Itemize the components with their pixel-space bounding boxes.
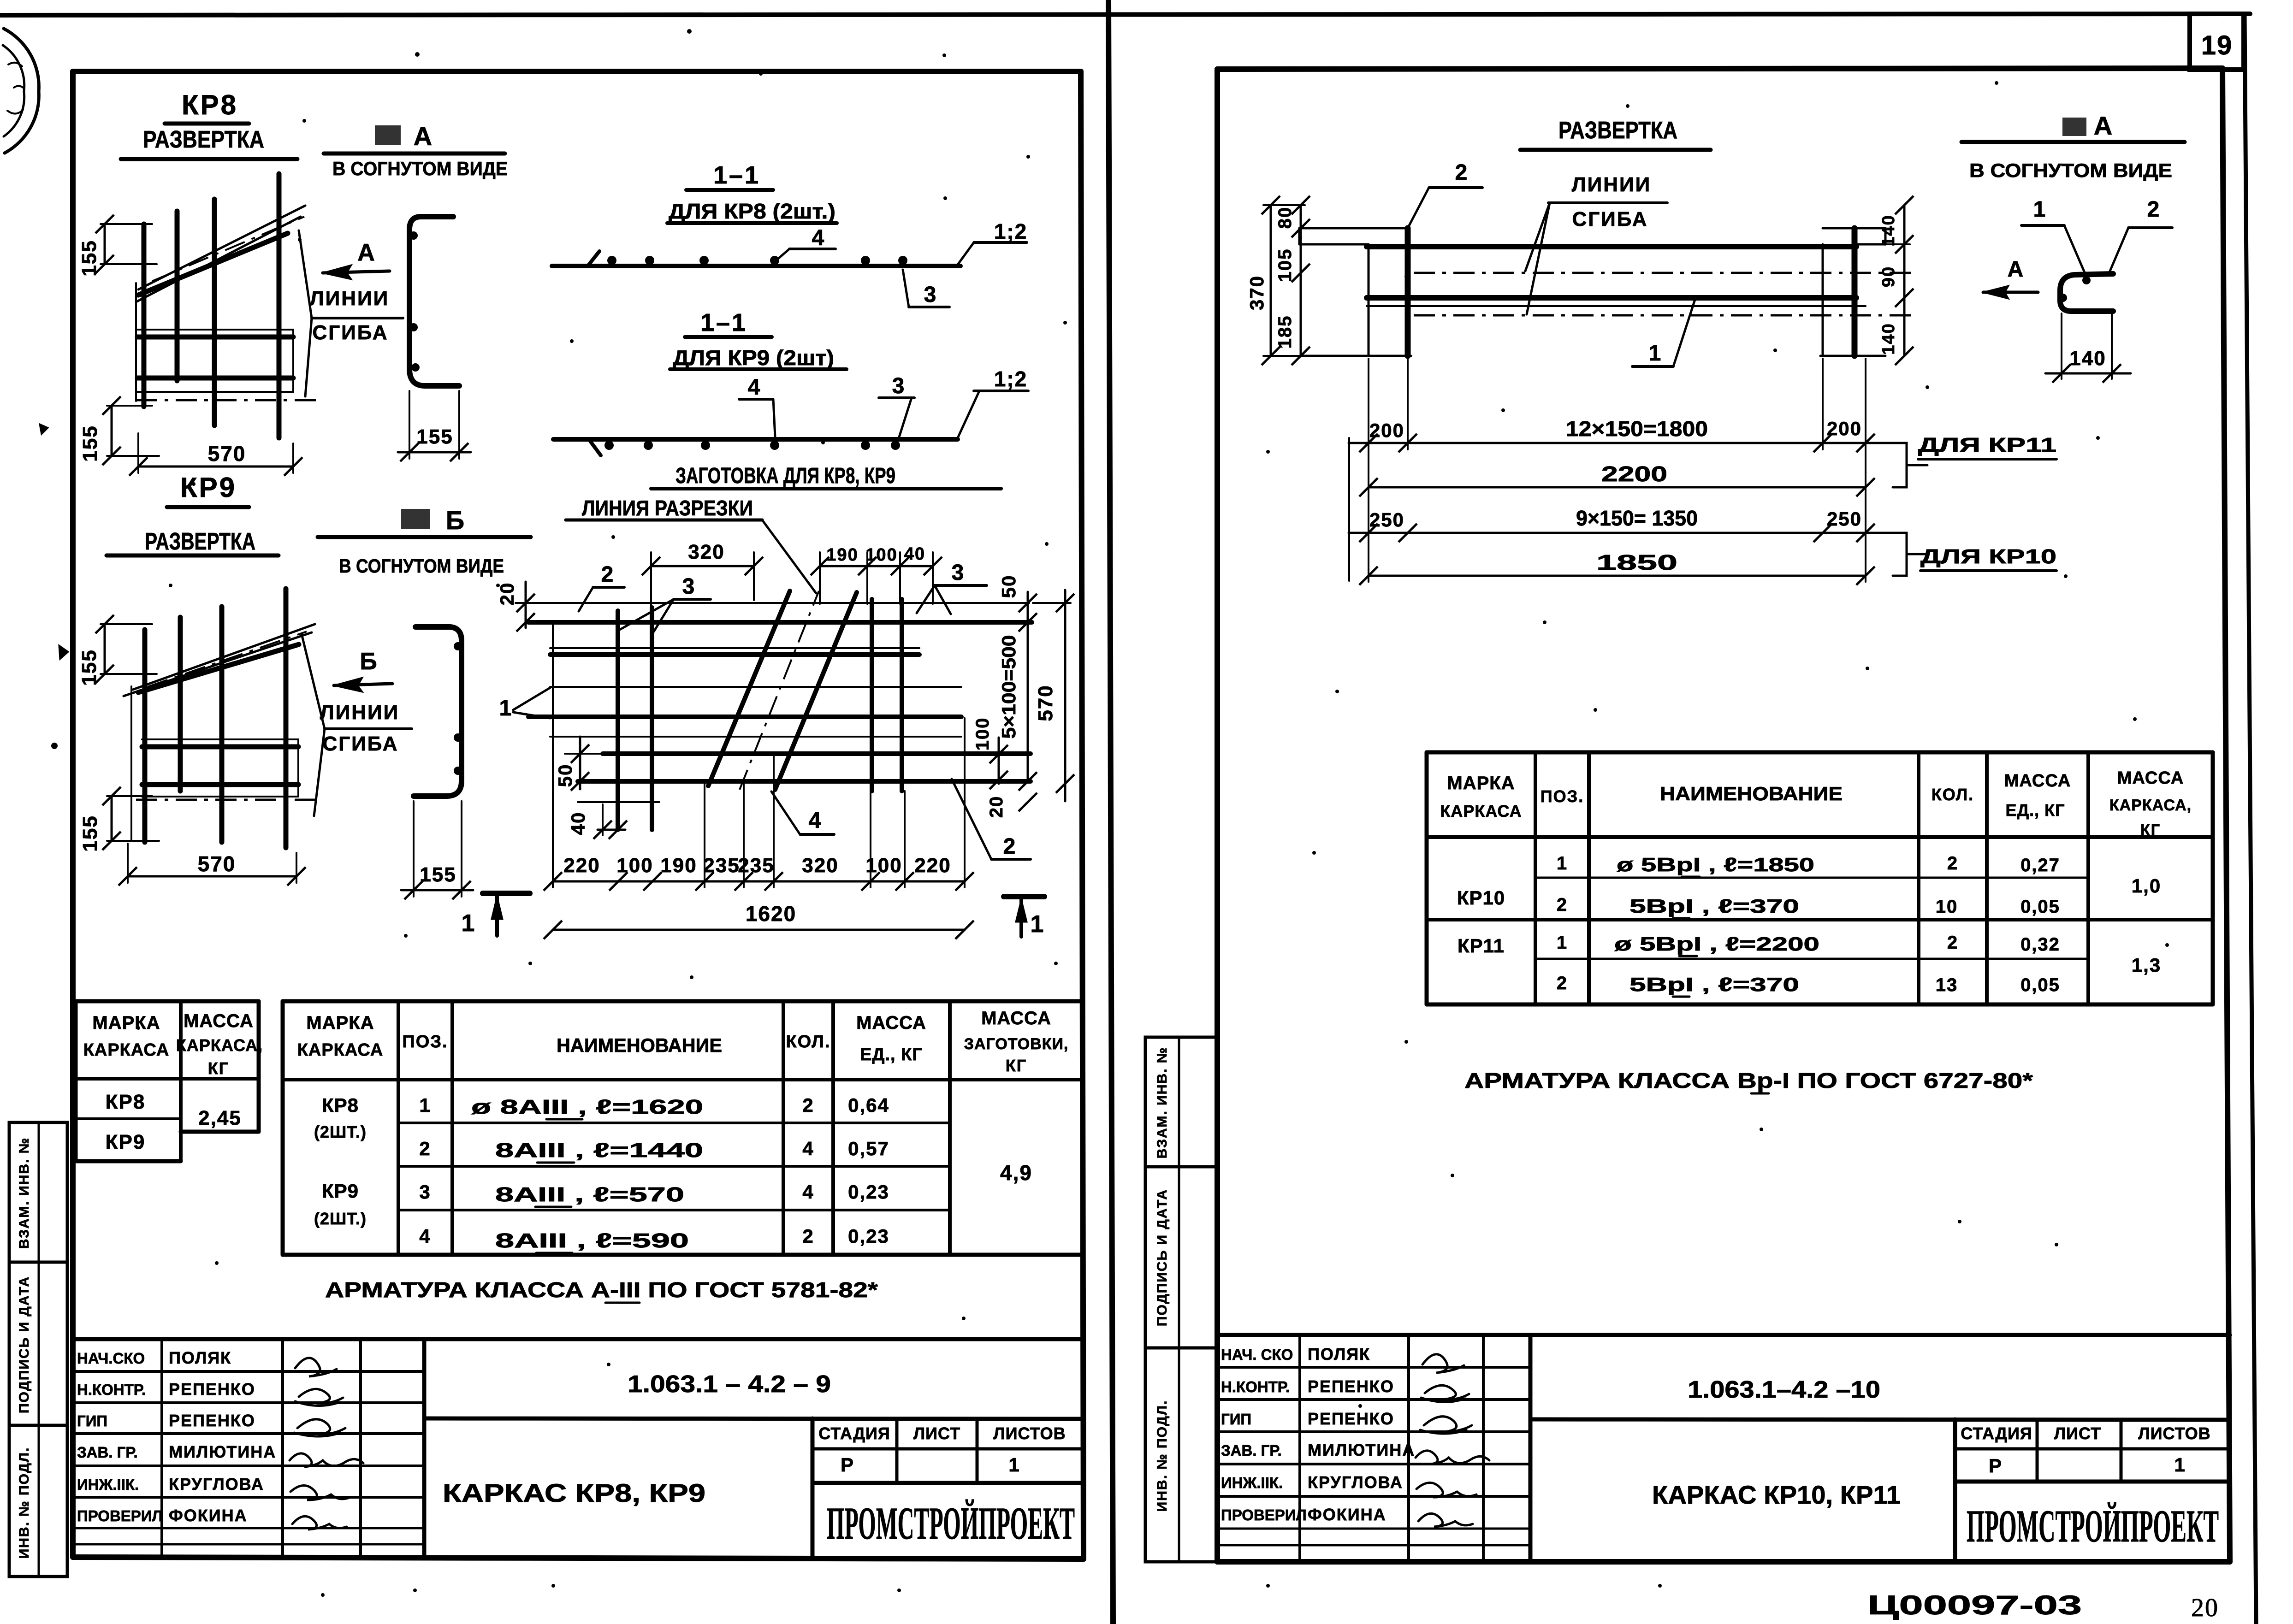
signature squiggles left sheet [290,1358,363,1530]
svg-text:РЕПЕНКО: РЕПЕНКО [1308,1409,1394,1428]
svg-text:ЛИСТ: ЛИСТ [2054,1424,2101,1443]
svg-text:4,9: 4,9 [1000,1161,1032,1185]
svg-text:ЛИНИЯ РАЗРЕЗКИ: ЛИНИЯ РАЗРЕЗКИ [582,496,753,520]
svg-text:МАРКА: МАРКА [92,1013,160,1033]
svg-text:2: 2 [1557,895,1568,915]
svg-text:4: 4 [809,809,822,833]
svg-text:КРУГЛОВА: КРУГЛОВА [169,1475,264,1494]
KP9 dim 570 bottom [119,844,306,886]
svg-text:А: А [2008,257,2025,282]
KP8 mesh horizontal wire lower [137,376,293,381]
svg-text:АРМАТУРА КЛАССА А-III ПО Г: АРМАТУРА КЛАССА А-III ПО ГОСТ 5781-82* [325,1278,878,1302]
svg-text:155: 155 [420,863,456,886]
svg-text:СГИБА: СГИБА [312,321,388,344]
svg-text:1,3: 1,3 [2132,954,2161,976]
KP8 bent section C-shape [409,217,459,386]
heading KP9 [167,472,249,507]
svg-text:0,27: 0,27 [2020,855,2060,875]
bent view dim 140 [2045,313,2131,383]
KP8 mesh left thin edge [135,283,137,401]
svg-text:1: 1 [1557,933,1568,953]
svg-text:155: 155 [79,815,101,851]
svg-text:ПОЗ.: ПОЗ. [1541,787,1584,806]
label 1 bent view right [2021,197,2086,276]
zagotovka left dim 40 [567,804,627,839]
margin column left sheet [9,1122,67,1577]
svg-text:4: 4 [419,1225,431,1247]
KP8 mesh thin rect outline [137,330,293,392]
svg-text:ø 8АIII , ℓ=1620: ø 8АIII , ℓ=1620 [471,1096,703,1118]
svg-text:НАЧ. СКО: НАЧ. СКО [1221,1346,1293,1363]
title block left sheet frame [73,1339,1084,1559]
svg-text:2: 2 [1947,853,1958,874]
svg-text:2,45: 2,45 [198,1107,242,1129]
svg-text:10: 10 [1936,897,1958,917]
note armatura class A-III left sheet [325,1278,878,1303]
label 3 with leader on section KP9 [879,374,914,437]
heading view B bent form [318,506,531,577]
svg-text:ПРОМСТРОЙПРОЕКТ: ПРОМСТРОЙПРОЕКТ [1967,1500,2219,1552]
svg-text:ГИП: ГИП [77,1412,107,1429]
margin speck marks [51,645,68,749]
label 1 with leader right mesh [1632,300,1695,366]
sheet number box 19 [2190,14,2244,70]
svg-text:1620: 1620 [746,902,796,926]
small table row KP8 [106,1091,146,1113]
svg-text:КГ: КГ [1006,1056,1027,1075]
svg-text:5×100=500: 5×100=500 [998,635,1019,739]
svg-text:(2ШТ.): (2ШТ.) [314,1122,367,1141]
svg-text:КАРКАСА: КАРКАСА [297,1040,384,1060]
zagotovka right dim 20 [986,793,1037,818]
heading view A right sheet [1961,111,2185,181]
svg-text:4: 4 [812,226,825,250]
right mesh top horizontal wire thick [1367,244,1856,249]
svg-text:19: 19 [2201,30,2233,60]
svg-text:Н.КОНТР.: Н.КОНТР. [77,1381,146,1398]
footer page number 20 [2191,1594,2219,1622]
svg-text:1: 1 [2033,197,2047,222]
svg-text:2: 2 [2147,197,2161,222]
svg-text:0,23: 0,23 [848,1225,889,1247]
right mesh middle horizontal wire thick [1367,295,1856,301]
heading section 1-1 for KP8 [667,161,837,223]
svg-text:МАССА: МАССА [2117,768,2184,788]
svg-text:Р: Р [841,1454,854,1476]
svg-text:20: 20 [986,796,1007,818]
svg-text:МАРКА: МАРКА [1447,773,1515,793]
svg-text:2: 2 [802,1094,814,1116]
zagotovka top dims 190 100 40 [811,544,942,604]
svg-text:ДЛЯ КР10: ДЛЯ КР10 [1920,545,2056,568]
svg-text:1: 1 [499,696,513,720]
svg-text:0,23: 0,23 [848,1181,889,1203]
big table marka column entries [314,1094,367,1228]
zagotovka right dim 570 [1033,590,1074,801]
right table row KP10 [1457,853,2161,918]
svg-text:3: 3 [682,574,696,599]
logo Promstroyproekt right [1967,1500,2219,1552]
svg-text:А: А [357,239,376,266]
right mesh right protrusion outline [1823,228,1885,244]
section 1-1 KP9 bar [553,439,958,455]
right table headers [1440,768,2192,839]
right mesh dim row 250 1350 250 [1349,506,1893,542]
svg-text:РАЗВЕРТКА: РАЗВЕРТКА [145,528,255,555]
svg-text:ЕД., КГ: ЕД., КГ [860,1045,923,1064]
note armatura class Vr-I right sheet [1464,1069,2033,1093]
svg-text:100: 100 [616,854,653,877]
margin column right sheet [1145,1037,1218,1562]
small table marka-massa frame [76,1001,259,1161]
svg-text:В СОГНУТОМ ВИДЕ: В СОГНУТОМ ВИДЕ [339,555,504,577]
big table headers [297,1008,1069,1075]
view arrow B for KP9 [334,648,392,692]
svg-text:РЕПЕНКО: РЕПЕНКО [1308,1377,1394,1396]
svg-text:КР10: КР10 [1457,887,1505,909]
zagotovka left dim 50 [554,737,604,791]
svg-text:ПОЛЯК: ПОЛЯК [169,1348,231,1367]
right mesh right vertical wire thick [1852,228,1858,356]
svg-text:А: А [2094,111,2113,140]
KP8 mesh vertical bar v3 [212,199,217,425]
svg-text:570: 570 [1034,685,1057,721]
zagotovka wire row 7 thick [578,779,1031,784]
svg-text:2: 2 [419,1138,431,1159]
label 1;2 with leader on section KP9 [958,367,1028,438]
label 2 bent view right [2109,197,2172,274]
svg-text:90: 90 [1879,266,1898,287]
svg-text:РАЗВЕРТКА: РАЗВЕРТКА [1558,117,1677,144]
bent view A hook shape [2059,274,2113,311]
heading Razvertka KP9 [107,528,278,555]
KP8 dim 570 bottom [129,433,302,476]
big table frame [283,1001,1083,1255]
svg-text:ПОДПИСЬ И ДАТА: ПОДПИСЬ И ДАТА [1155,1189,1170,1326]
zagotovka vertical wire w2 [650,608,654,830]
svg-text:100: 100 [972,717,993,751]
right sheet frame [1217,68,2230,1562]
svg-text:2: 2 [1455,160,1469,185]
svg-text:РАЗВЕРТКА: РАЗВЕРТКА [143,126,264,153]
KP8 mesh fold dash-dot diagonal [152,217,304,281]
svg-text:4: 4 [802,1138,814,1159]
svg-text:ФОКИНА: ФОКИНА [169,1506,248,1525]
svg-text:ИНЖ.IIК.: ИНЖ.IIК. [1221,1474,1283,1491]
right mesh right dims 140 90 140 [1879,196,1914,365]
label 2 bottom-right with leader [952,779,1031,859]
svg-text:СГИБА: СГИБА [1572,208,1648,230]
svg-text:40: 40 [567,812,589,835]
svg-text:НАИМЕНОВАНИЕ: НАИМЕНОВАНИЕ [1660,783,1843,804]
svg-text:8АIII , ℓ=1440: 8АIII , ℓ=1440 [495,1139,703,1162]
svg-text:1: 1 [1557,853,1568,874]
svg-text:КАРКАС КР10, КР11: КАРКАС КР10, КР11 [1652,1480,1901,1509]
svg-text:ЗАГОТОВКА ДЛЯ КР8, КР9: ЗАГОТОВКА ДЛЯ КР8, КР9 [675,464,895,488]
svg-text:ø 5ВрI , ℓ=1850: ø 5ВрI , ℓ=1850 [1617,854,1814,875]
KP9 mesh fold dash-dot diagonal [148,632,307,687]
zagotovka bottom dim 1620 [544,902,974,939]
section 1-1 KP9 wire dots [604,441,900,450]
svg-text:3: 3 [892,374,906,398]
svg-text:ø 5ВрI , ℓ=2200: ø 5ВрI , ℓ=2200 [1614,933,1819,955]
right mesh left dim chain 80 105 185 [1275,196,1310,365]
svg-text:КАРКАСА,: КАРКАСА, [2109,797,2192,814]
KP8 dim 155 top [78,215,157,277]
svg-text:8АIII , ℓ=590: 8АIII , ℓ=590 [495,1229,689,1252]
svg-text:250: 250 [1827,508,1862,530]
svg-text:КАРКАСА,: КАРКАСА, [176,1036,263,1055]
right mesh thin line below middle wire [1367,305,1866,307]
zagotovka bottom dim chain [544,622,974,891]
zagotovka cut diagonal thick 2 [775,592,857,790]
svg-text:КР9: КР9 [180,472,237,503]
svg-text:370: 370 [1246,275,1268,310]
svg-text:МАССА: МАССА [856,1013,926,1033]
svg-text:ЗАВ. ГР.: ЗАВ. ГР. [77,1444,138,1461]
svg-text:1–1: 1–1 [713,161,760,189]
svg-text:КР8: КР8 [106,1091,146,1113]
label 2 top with leader [579,562,624,611]
svg-text:2: 2 [1557,973,1568,993]
svg-text:20: 20 [2191,1594,2219,1622]
section mark 1 bottom of KP9 area [462,893,530,937]
svg-text:ВЗАМ. ИНВ. №: ВЗАМ. ИНВ. № [1155,1047,1170,1158]
svg-text:105: 105 [1275,248,1295,282]
svg-text:ПОДПИСЬ И ДАТА: ПОДПИСЬ И ДАТА [17,1276,32,1413]
KP9 mesh vertical bar v3 [219,607,225,842]
KP9 mesh thin rect outline [142,739,298,797]
stadia list listov grid left [812,1418,1083,1483]
right mesh dim row 200 1800 200 [1349,359,1893,582]
svg-text:320: 320 [688,541,724,563]
svg-text:5ВрI , ℓ=370: 5ВрI , ℓ=370 [1629,895,1799,917]
view arrow A right sheet [1983,257,2038,299]
svg-text:РЕПЕНКО: РЕПЕНКО [169,1411,255,1430]
right mesh left protrusion outline [1299,228,1408,244]
zagotovka thin line row 5 [550,736,961,738]
svg-text:12×150=1800: 12×150=1800 [1566,417,1708,441]
zagotovka wire row 6 thick [603,751,1031,756]
svg-text:1: 1 [1031,911,1045,938]
svg-text:АРМАТУРА КЛАССА Вр-I ПО ГО: АРМАТУРА КЛАССА Вр-I ПО ГОСТ 6727-80* [1464,1069,2033,1093]
svg-text:Б: Б [446,506,465,535]
bracket dlya KP10 [1893,533,2056,576]
small table headers [83,1011,263,1078]
right mesh fold dash-dot upper [1414,272,1914,274]
svg-text:2: 2 [802,1225,814,1247]
svg-text:50: 50 [554,764,576,787]
svg-text:1.063.1–4.2 –10: 1.063.1–4.2 –10 [1688,1376,1880,1403]
KP8 mesh vertical bar v2 [175,211,180,381]
big table row 2 [419,1138,889,1163]
KP9 mesh horizontal wire upper [142,744,298,750]
KP8 mesh bottom fold dash-dot [136,399,323,402]
svg-text:3: 3 [924,283,937,307]
logo Promstroyproekt left [827,1498,1075,1549]
zagotovka cut dash-dot diagonal [740,591,819,790]
svg-text:ЗАВ. ГР.: ЗАВ. ГР. [1221,1442,1282,1459]
svg-text:ПРОВЕРИЛ: ПРОВЕРИЛ [1221,1506,1307,1524]
page top edge line [0,14,2250,15]
big table merged value 4,9 [1000,1161,1032,1185]
svg-text:МАССА: МАССА [981,1008,1051,1028]
svg-text:НАЧ.СКО: НАЧ.СКО [77,1350,145,1367]
svg-text:100: 100 [865,854,902,877]
svg-text:235: 235 [738,854,774,877]
label Linii sgiba KP9 [302,634,412,816]
svg-text:В СОГНУТОМ ВИДЕ: В СОГНУТОМ ВИДЕ [1969,159,2172,181]
zagotovka wire row 4 thick [528,715,961,719]
svg-text:1–1: 1–1 [700,309,747,337]
KP8 mesh diagonal thin lower [136,217,301,302]
label Liniya razrezki with leader [566,496,816,593]
section mark 1 right of zagotovka [1004,897,1044,938]
zagotovka cut diagonal thick 1 [708,591,790,786]
footer document code [1867,1590,2082,1620]
big table row 1 [419,1094,889,1119]
zagotovka left dim 20 [496,582,535,632]
svg-text:155: 155 [416,425,453,448]
svg-text:ЛИНИИ: ЛИНИИ [1572,173,1652,196]
big table row 3 [419,1181,889,1207]
KP8 mesh diagonal thin upper [138,206,305,289]
small table value 2,45 [198,1107,242,1129]
svg-text:5ВрI , ℓ=370: 5ВрI , ℓ=370 [1629,974,1799,995]
drawing title Karkas KP10 KP11 [1652,1480,1901,1509]
svg-text:ИНЖ.IIК.: ИНЖ.IIК. [77,1476,139,1493]
svg-text:Ц00097-03: Ц00097-03 [1867,1590,2082,1620]
svg-text:155: 155 [79,425,101,461]
svg-text:КГ: КГ [2140,821,2161,839]
svg-text:0,64: 0,64 [848,1094,889,1116]
zagotovka vertical wire w1 [616,611,620,830]
svg-text:155: 155 [78,649,101,685]
heading Razvertka right sheet [1520,117,1711,150]
label 2 with leader right mesh [1408,160,1482,228]
svg-text:СТАДИЯ: СТАДИЯ [1961,1424,2032,1443]
left extension line for right mesh dims [1348,438,1350,581]
right mesh dim row 1850 [1359,550,1875,585]
right mesh dim row 2200 [1359,462,1875,496]
svg-text:ЕД., КГ: ЕД., КГ [2005,801,2065,820]
svg-text:КГ: КГ [208,1059,229,1078]
svg-text:140: 140 [2069,347,2106,370]
svg-text:2: 2 [1003,834,1017,859]
svg-text:ИНВ. № ПОДЛ.: ИНВ. № ПОДЛ. [17,1447,32,1559]
svg-text:А: А [414,122,433,151]
corner stamp arc top-left [3,29,39,153]
KP9 mesh diagonal thick wire pos2 [138,644,299,692]
label 4 bottom with leader [771,791,834,834]
stadia list listov grid right [1955,1419,2230,1482]
page right outer edge line [2245,14,2256,1624]
svg-text:1850: 1850 [1596,550,1677,574]
svg-text:КР11: КР11 [1458,935,1505,957]
svg-text:8АIII , ℓ=570: 8АIII , ℓ=570 [495,1183,684,1206]
svg-text:1: 1 [1649,341,1662,366]
svg-text:МАССА: МАССА [2004,771,2071,791]
svg-text:СТАДИЯ: СТАДИЯ [818,1424,890,1443]
title block right sheet frame [1217,1335,2230,1562]
svg-text:(2ШТ.): (2ШТ.) [314,1209,367,1228]
zagotovka thin bottom left line [578,801,659,803]
svg-text:ЛИСТ: ЛИСТ [913,1424,960,1443]
right mesh left vertical wire thick [1405,228,1411,356]
label 4 with leader on section KP9 [739,375,775,437]
title block signature names left [77,1348,276,1525]
svg-text:КАРКАСА: КАРКАСА [1440,802,1522,821]
svg-text:МАРКА: МАРКА [306,1013,374,1033]
svg-text:КР9: КР9 [106,1131,146,1153]
svg-text:Н.КОНТР.: Н.КОНТР. [1221,1378,1290,1395]
KP9 mesh diagonal thin upper [133,624,315,690]
KP8 bent dim 155 [398,391,471,461]
title block signature names right [1221,1345,1415,1524]
KP9 mesh left thin edge [130,686,132,840]
KP9 mesh vertical bar v2 [178,617,183,791]
svg-text:0,05: 0,05 [2020,975,2060,995]
svg-text:13: 13 [1936,975,1958,995]
svg-text:МИЛЮТИНА: МИЛЮТИНА [169,1442,276,1461]
svg-text:В СОГНУТОМ ВИДЕ: В СОГНУТОМ ВИДЕ [332,158,508,179]
heading Razvertka KP8 [121,126,297,159]
svg-text:ЛИСТОВ: ЛИСТОВ [993,1424,1066,1443]
svg-text:3: 3 [952,561,965,585]
svg-text:ДЛЯ КР11: ДЛЯ КР11 [1918,434,2056,456]
zagotovka wire row 1 thick [528,620,1032,625]
svg-text:0,32: 0,32 [2020,934,2060,955]
zagotovka vertical wire w3 [870,599,874,791]
svg-text:0,57: 0,57 [848,1138,889,1159]
svg-text:КР9: КР9 [322,1180,359,1202]
svg-text:ПРОВЕРИЛ: ПРОВЕРИЛ [77,1507,163,1524]
svg-text:ПРОМСТРОЙПРОЕКТ: ПРОМСТРОЙПРОЕКТ [827,1498,1075,1549]
svg-text:КРУГЛОВА: КРУГЛОВА [1308,1473,1403,1492]
zagotovka vertical wire w4 [900,599,904,791]
svg-text:220: 220 [914,854,951,877]
svg-text:СГИБА: СГИБА [322,732,398,755]
heading view A bent form [324,122,508,179]
svg-text:250: 250 [1369,509,1404,531]
KP8 mesh horizontal wire upper [137,335,293,340]
zagotovka top dim 320 [642,541,763,639]
svg-text:200: 200 [1369,419,1404,441]
svg-text:МИЛЮТИНА: МИЛЮТИНА [1308,1441,1415,1459]
svg-text:1: 1 [419,1094,431,1116]
zagotovka right dim 100 [972,717,1008,789]
svg-text:ДЛЯ КР8 (2шт.): ДЛЯ КР8 (2шт.) [669,199,835,223]
svg-text:ПОЗ.: ПОЗ. [402,1032,448,1051]
zagotovka right dim 5x100=500 [998,622,1037,791]
big table row 4 [419,1225,889,1253]
svg-text:МАССА: МАССА [184,1011,254,1031]
KP8 mesh vertical bar v1 [142,224,147,407]
heading KP8 [165,89,249,124]
svg-text:КОЛ.: КОЛ. [786,1032,830,1051]
KP9 dim 155 top [78,615,157,686]
svg-text:1,0: 1,0 [2132,875,2161,897]
KP9 bent section C-shape mirrored [414,627,462,796]
svg-text:140: 140 [1879,323,1898,354]
svg-text:4: 4 [748,375,761,400]
section 1-1 KP8 bar [552,251,960,266]
KP8 mesh vertical bar v4 [277,174,282,438]
small blot left margin [40,424,48,434]
svg-text:4: 4 [802,1181,814,1203]
svg-text:3: 3 [419,1181,431,1203]
zagotovka right dim 50 [998,575,1037,632]
